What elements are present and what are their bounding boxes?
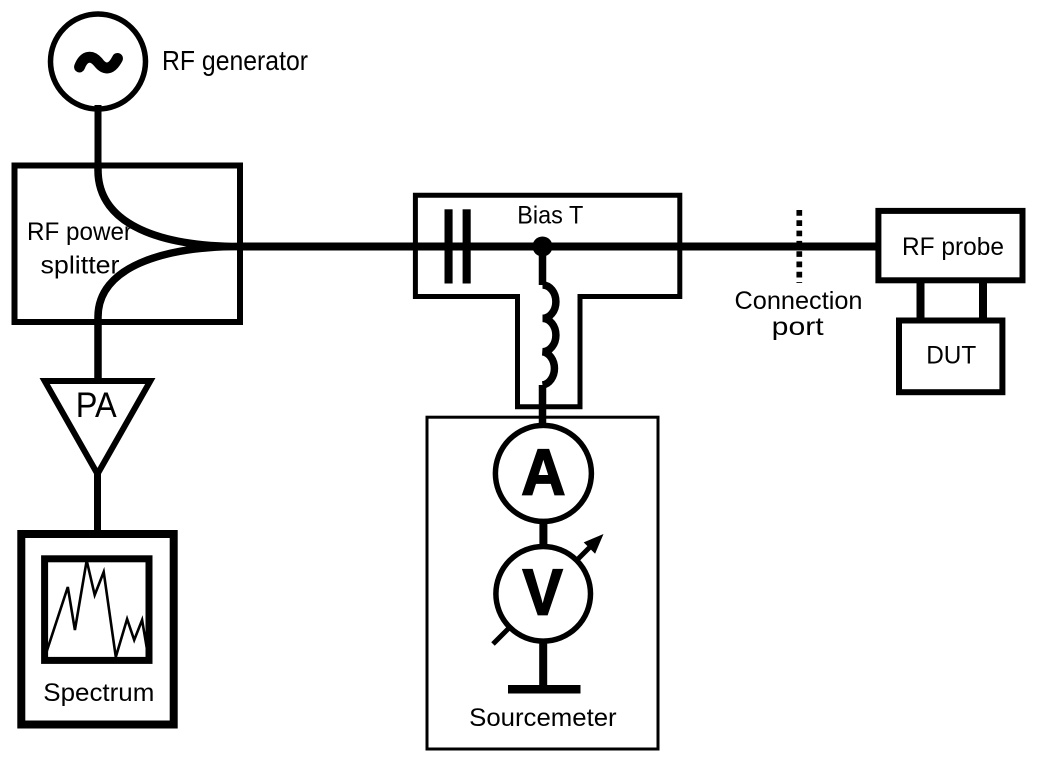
RF probe box xyxy=(878,211,1022,280)
wire voltmeter to ground bar xyxy=(539,640,547,689)
svg-text:Sourcemeter: Sourcemeter xyxy=(469,704,617,732)
sourcemeter box xyxy=(427,417,658,749)
RF probe to DUT left leg xyxy=(917,283,925,320)
wire PA to spectrum analyzer xyxy=(94,474,101,534)
svg-text:RF generator: RF generator xyxy=(162,45,308,76)
svg-text:V: V xyxy=(523,557,563,629)
svg-text:PA: PA xyxy=(76,385,117,425)
svg-text:Connection: Connection xyxy=(735,287,863,315)
wire ammeter to voltmeter xyxy=(539,520,547,547)
variable source arrow head xyxy=(584,534,604,554)
splitter upper branch curve xyxy=(98,165,240,247)
svg-text:Bias T: Bias T xyxy=(517,201,583,229)
RF generator source circle xyxy=(51,14,146,109)
inductor coil wire xyxy=(539,247,547,425)
PA amplifier triangle xyxy=(45,381,151,474)
variable source arrow shaft xyxy=(578,546,592,560)
ammeter circle A xyxy=(495,425,591,521)
voltmeter circle V xyxy=(496,547,591,642)
RF power splitter box xyxy=(15,166,241,323)
connection port dashed line xyxy=(796,210,802,283)
svg-text:splitter: splitter xyxy=(41,252,120,280)
svg-text:A: A xyxy=(521,437,565,509)
svg-text:RF probe: RF probe xyxy=(902,233,1004,261)
spectrum analyzer screen inner box xyxy=(45,559,149,661)
svg-text:Spectrum: Spectrum xyxy=(43,679,154,707)
splitter lower branch curve and wire to PA xyxy=(98,247,240,382)
svg-text:RF power: RF power xyxy=(27,218,132,246)
junction dot xyxy=(533,237,553,257)
sine wave symbol xyxy=(80,57,118,68)
variable source arrow lower stub xyxy=(493,628,509,644)
svg-text:port: port xyxy=(772,313,824,341)
inductor coil arcs xyxy=(543,285,556,385)
spectrum analyzer outer box xyxy=(21,534,173,725)
RF probe to DUT right leg xyxy=(979,283,987,320)
Bias T outline box (T shape) xyxy=(415,195,679,407)
spectrum waveform trace xyxy=(47,561,149,658)
wire generator to splitter xyxy=(95,105,102,167)
capacitor DC block bars xyxy=(445,209,453,283)
svg-text:DUT: DUT xyxy=(926,341,976,369)
ground bar terminal xyxy=(508,685,581,694)
DUT box xyxy=(899,321,1002,393)
main RF wire splitter to RF probe xyxy=(240,243,878,251)
